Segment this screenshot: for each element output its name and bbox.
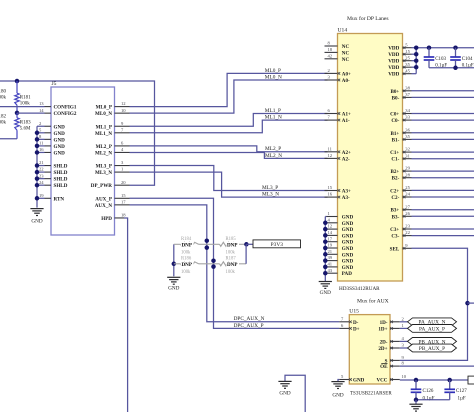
junction dots VDD bus	[414, 45, 419, 50]
junction dot R186 left	[172, 262, 177, 267]
svg-text:PA_AUX_P: PA_AUX_P	[419, 326, 445, 332]
svg-text:37: 37	[405, 92, 410, 97]
svg-text:C2-: C2-	[391, 195, 399, 201]
svg-text:ML1_N: ML1_N	[265, 115, 282, 121]
svg-text:17: 17	[328, 236, 333, 241]
wire VCC rail	[400, 379, 468, 381]
svg-text:GND: GND	[342, 246, 354, 252]
svg-text:R186: R186	[181, 257, 192, 262]
wire ML0_N	[130, 80, 328, 113]
svg-text:GND: GND	[342, 227, 354, 233]
svg-text:R183: R183	[20, 120, 31, 125]
wire C126 to ground	[415, 400, 417, 404]
svg-text:VDD: VDD	[388, 59, 399, 65]
svg-text:23: 23	[405, 224, 410, 229]
svg-text:GND: GND	[31, 219, 42, 225]
svg-text:15: 15	[328, 185, 333, 190]
svg-text:25: 25	[405, 185, 410, 190]
svg-text:GND: GND	[54, 124, 66, 130]
svg-text:1: 1	[402, 323, 405, 328]
U14 left pin x-marks	[338, 72, 341, 75]
resistor R185 100k DNP	[207, 243, 220, 245]
wire VDD caps bottom rail	[429, 67, 474, 69]
svg-text:C1-: C1-	[391, 157, 399, 163]
svg-text:ML3_N: ML3_N	[262, 192, 279, 198]
svg-text:35: 35	[405, 62, 410, 67]
svg-text:3: 3	[328, 75, 331, 80]
power flag P3V3	[253, 240, 301, 248]
svg-text:C0+: C0+	[390, 112, 399, 118]
wire DP_PWR net (J5 pin 20 up and across top)	[0, 81, 155, 185]
svg-text:12: 12	[328, 153, 333, 158]
svg-text:8: 8	[39, 134, 42, 139]
svg-text:9: 9	[405, 243, 408, 248]
svg-text:12: 12	[121, 101, 126, 106]
svg-text:Mux for AUX: Mux for AUX	[357, 298, 389, 305]
svg-text:28: 28	[405, 172, 410, 177]
svg-text:GND: GND	[279, 390, 290, 396]
svg-text:ML1_P: ML1_P	[265, 108, 281, 114]
net flag PB_AUX_N	[408, 338, 457, 346]
ground GND at C126	[409, 403, 422, 405]
svg-text:29: 29	[405, 166, 410, 171]
svg-text:45: 45	[405, 68, 410, 73]
wire CONFIG2	[17, 112, 45, 114]
svg-text:DPC_AUX_P: DPC_AUX_P	[234, 323, 264, 329]
svg-text:100k: 100k	[0, 96, 7, 101]
wire ML3_P	[130, 166, 328, 191]
svg-text:A1-: A1-	[342, 118, 350, 124]
svg-text:13: 13	[39, 101, 44, 106]
svg-text:ML3_N: ML3_N	[95, 170, 112, 176]
svg-text:B0+: B0+	[390, 89, 399, 95]
svg-text:PAD: PAD	[342, 271, 352, 277]
svg-text:8: 8	[402, 361, 405, 366]
junction dot caps bottom	[453, 66, 458, 71]
U14 right pin x-marks	[403, 46, 406, 49]
svg-text:1: 1	[121, 167, 124, 172]
IC U14 HD3SS3412 mux	[338, 34, 403, 282]
svg-text:HPD: HPD	[101, 216, 112, 222]
svg-text:GND: GND	[353, 378, 365, 384]
svg-text:24: 24	[39, 180, 44, 185]
svg-text:VCC: VCC	[376, 378, 387, 384]
svg-text:ML2_N: ML2_N	[95, 150, 112, 156]
svg-text:10: 10	[121, 108, 126, 113]
wire ML2_P	[130, 146, 328, 152]
wire CONFIG1 to left edge	[0, 106, 45, 108]
wire 2D- to flag	[400, 340, 408, 342]
svg-text:5: 5	[405, 42, 408, 47]
wire GND to R184/R186 left	[173, 244, 175, 276]
svg-text:1D+: 1D+	[378, 326, 387, 332]
svg-text:CONFIG2: CONFIG2	[54, 111, 77, 117]
svg-text:B1-: B1-	[392, 137, 400, 143]
wire SEL to U15 S pin	[400, 248, 468, 360]
IC U15 TS3USB221A	[349, 315, 390, 384]
wire R187 up to P3V3 node	[245, 244, 247, 263]
svg-text:18: 18	[328, 47, 333, 52]
svg-text:GND: GND	[54, 137, 66, 143]
junction dots VDD rail	[427, 45, 432, 50]
svg-text:7: 7	[341, 316, 344, 321]
svg-text:100k: 100k	[181, 250, 191, 255]
svg-text:DP_PWR: DP_PWR	[91, 183, 113, 189]
J5 right pin stubs	[115, 106, 130, 108]
svg-text:11: 11	[39, 141, 44, 146]
U15 left pin x-marks	[349, 321, 352, 324]
svg-text:ML1_N: ML1_N	[95, 131, 112, 137]
svg-text:2: 2	[328, 68, 331, 73]
wire VDD bus	[415, 48, 417, 74]
svg-text:2: 2	[39, 121, 42, 126]
svg-text:R182: R182	[0, 115, 6, 120]
ground GND bottom left of U15	[278, 380, 291, 382]
power flag P3V3 at VCC clipped	[468, 376, 474, 384]
svg-text:HD3SS3412RUAR: HD3SS3412RUAR	[339, 286, 380, 292]
svg-text:22: 22	[405, 230, 410, 235]
label DNP R184	[181, 242, 194, 248]
svg-text:C127: C127	[456, 389, 467, 394]
svg-text:C126: C126	[423, 389, 434, 394]
wire AUX_P down to AUX mux	[130, 198, 340, 328]
svg-text:ML1_P: ML1_P	[96, 124, 112, 130]
svg-text:34: 34	[405, 108, 410, 113]
svg-text:VDD: VDD	[388, 72, 399, 78]
junction dot P3V3 node	[244, 242, 249, 247]
ground GND AUX bias	[167, 276, 180, 278]
svg-text:R181: R181	[20, 96, 31, 101]
svg-text:U14: U14	[338, 28, 348, 34]
svg-text:GND: GND	[342, 221, 354, 227]
svg-text:20: 20	[121, 180, 126, 185]
svg-text:17: 17	[121, 199, 126, 204]
svg-text:RTN: RTN	[54, 196, 65, 202]
svg-text:GND: GND	[342, 233, 354, 239]
svg-text:GND: GND	[54, 131, 66, 137]
svg-text:100k: 100k	[0, 121, 7, 126]
wire bottom ground net	[285, 375, 305, 412]
capacitor C103 0.1uF	[428, 48, 430, 57]
svg-text:OE: OE	[380, 364, 388, 370]
svg-text:16: 16	[39, 147, 44, 152]
svg-text:J5: J5	[52, 81, 57, 87]
svg-text:27: 27	[405, 204, 410, 209]
svg-text:R180: R180	[0, 90, 6, 95]
svg-text:C3-: C3-	[391, 234, 399, 240]
wires U14 B/C outputs to right edge	[412, 90, 474, 92]
svg-text:A3+: A3+	[342, 189, 351, 195]
svg-text:DNP: DNP	[182, 262, 192, 268]
junction dots AUX_N tap	[205, 238, 210, 243]
svg-text:19: 19	[39, 193, 44, 198]
svg-text:R184: R184	[181, 237, 192, 242]
label DNP R185	[226, 242, 239, 248]
svg-text:ML2_P: ML2_P	[265, 146, 281, 152]
svg-text:GND: GND	[54, 150, 66, 156]
resistor R186 100k DNP	[174, 263, 181, 265]
svg-text:AUX_P: AUX_P	[95, 196, 112, 202]
svg-text:43: 43	[328, 268, 333, 273]
svg-text:VDD: VDD	[388, 65, 399, 71]
ground GND at U14	[319, 281, 332, 283]
svg-text:1µF: 1µF	[458, 397, 466, 402]
svg-text:38: 38	[405, 85, 410, 90]
svg-text:NC: NC	[342, 44, 350, 50]
wire OE to right edge	[400, 365, 474, 367]
svg-text:A2+: A2+	[342, 150, 351, 156]
svg-text:GND: GND	[342, 240, 354, 246]
svg-text:B2-: B2-	[392, 176, 400, 182]
svg-text:U15: U15	[349, 309, 359, 315]
svg-text:39: 39	[328, 255, 333, 260]
svg-text:23: 23	[39, 173, 44, 178]
wire ML3_N	[130, 172, 328, 197]
svg-text:C2+: C2+	[390, 188, 399, 194]
svg-text:4: 4	[402, 336, 405, 341]
svg-text:DNP: DNP	[227, 243, 237, 249]
svg-text:5: 5	[39, 127, 42, 132]
svg-text:P3V3: P3V3	[271, 242, 284, 248]
svg-text:6: 6	[341, 323, 344, 328]
svg-text:SHLD: SHLD	[54, 164, 68, 170]
svg-text:D-: D-	[353, 320, 359, 326]
svg-text:5.6M: 5.6M	[20, 126, 31, 131]
svg-text:8: 8	[328, 41, 331, 46]
svg-text:NC: NC	[342, 50, 350, 56]
junction dot C126 bottom	[414, 398, 419, 403]
svg-text:NC: NC	[342, 57, 350, 63]
svg-text:24: 24	[405, 192, 410, 197]
svg-text:AUX_N: AUX_N	[95, 203, 113, 209]
svg-text:SHLD: SHLD	[54, 183, 68, 189]
wire caps bottom C126 C127	[416, 399, 450, 401]
svg-text:VDD: VDD	[388, 46, 399, 52]
svg-text:B0-: B0-	[392, 95, 400, 101]
svg-text:11: 11	[328, 146, 333, 151]
svg-text:4: 4	[121, 147, 124, 152]
capacitor C104 0.1uF	[455, 48, 457, 57]
svg-text:21: 21	[39, 160, 44, 165]
svg-text:5: 5	[341, 374, 344, 379]
svg-text:25: 25	[405, 55, 410, 60]
svg-text:B1+: B1+	[390, 131, 399, 137]
svg-text:GND: GND	[342, 265, 354, 271]
svg-text:100k: 100k	[181, 270, 191, 275]
junction node CONFIG2 / R183	[15, 111, 20, 116]
U15 right pin stubs	[390, 321, 400, 323]
svg-text:C0-: C0-	[391, 118, 399, 124]
svg-text:A3-: A3-	[342, 195, 350, 201]
svg-text:ML0_P: ML0_P	[265, 68, 281, 74]
junction dots J5 GND bus	[35, 131, 40, 136]
svg-text:ML2_P: ML2_P	[96, 144, 112, 150]
svg-text:PB_AUX_P: PB_AUX_P	[419, 346, 445, 352]
svg-text:6: 6	[121, 141, 124, 146]
svg-text:SEL: SEL	[390, 246, 400, 252]
svg-text:41: 41	[328, 262, 333, 267]
svg-text:16: 16	[328, 192, 333, 197]
svg-text:14: 14	[39, 108, 44, 113]
resistor R181 100k	[16, 81, 18, 93]
wire 1D- to flag	[400, 321, 408, 323]
svg-text:GND: GND	[342, 259, 354, 265]
wire VDD rail to caps	[416, 47, 474, 49]
svg-text:DPC_AUX_N: DPC_AUX_N	[234, 316, 265, 322]
J5 left pin stubs	[45, 106, 52, 108]
junction dot SEL branch	[465, 301, 470, 306]
svg-text:B3+: B3+	[390, 208, 399, 214]
svg-text:100k: 100k	[226, 250, 236, 255]
svg-text:C103: C103	[435, 57, 446, 62]
svg-text:ML3_P: ML3_P	[262, 185, 278, 191]
wire to P3V3 flag	[246, 243, 253, 245]
ground GND at J5	[30, 208, 43, 210]
svg-text:R187: R187	[226, 257, 237, 262]
svg-text:100k: 100k	[226, 270, 236, 275]
svg-text:33: 33	[405, 115, 410, 120]
svg-text:42: 42	[328, 53, 333, 58]
net flag PA_AUX_P	[408, 325, 457, 333]
svg-text:2D-: 2D-	[380, 339, 388, 345]
svg-text:22: 22	[39, 167, 44, 172]
svg-text:6: 6	[328, 108, 331, 113]
svg-text:GND: GND	[54, 144, 66, 150]
svg-text:14: 14	[328, 230, 333, 235]
net flag PA_AUX_N	[408, 318, 457, 326]
net flag PB_AUX_P	[408, 344, 457, 352]
ground GND at U15	[331, 381, 344, 383]
svg-text:TS3USB221ARSER: TS3USB221ARSER	[350, 392, 392, 397]
svg-text:C1+: C1+	[390, 150, 399, 156]
junction dots AUX_P tap	[211, 258, 216, 263]
svg-text:1D-: 1D-	[380, 320, 388, 326]
U15 right pin x-marks	[390, 321, 393, 324]
svg-text:0.1µF: 0.1µF	[423, 397, 435, 402]
resistor R183 5.6M	[16, 113, 18, 118]
svg-text:GND: GND	[342, 215, 354, 221]
capacitor C126 0.1uF	[415, 380, 417, 389]
wire ML1_P	[130, 114, 328, 127]
U15 OE overline	[381, 362, 387, 364]
svg-text:9: 9	[121, 121, 124, 126]
resistor R184 100k DNP	[174, 243, 181, 245]
wire 2D+ to flag	[400, 347, 408, 349]
svg-text:100k: 100k	[20, 102, 31, 107]
svg-text:R185: R185	[226, 237, 237, 242]
wire ML0_P	[130, 73, 328, 106]
svg-text:DNP: DNP	[227, 262, 237, 268]
svg-text:DNP: DNP	[182, 243, 192, 249]
svg-text:GND: GND	[320, 290, 331, 296]
svg-text:15: 15	[121, 193, 126, 198]
svg-text:21: 21	[328, 249, 333, 254]
svg-text:19: 19	[328, 243, 333, 248]
wire AUX_N down to AUX mux	[130, 205, 340, 322]
svg-text:12: 12	[328, 224, 333, 229]
svg-text:GND: GND	[168, 285, 179, 291]
svg-text:A1+: A1+	[342, 112, 351, 118]
resistor R187 100k DNP	[214, 263, 220, 265]
svg-text:1: 1	[328, 211, 331, 216]
svg-text:4: 4	[328, 217, 331, 222]
wire J5 GND bus	[36, 126, 38, 207]
svg-text:7: 7	[328, 115, 331, 120]
svg-text:A0-: A0-	[342, 78, 350, 84]
svg-text:ML0_N: ML0_N	[265, 74, 282, 80]
wire ML1_N	[130, 120, 328, 133]
svg-text:10: 10	[402, 374, 407, 379]
svg-text:7: 7	[121, 127, 124, 132]
svg-text:26: 26	[405, 211, 410, 216]
label DNP R186	[181, 262, 194, 268]
svg-text:VDD: VDD	[388, 52, 399, 58]
wire HPD down	[124, 218, 128, 412]
svg-text:3: 3	[121, 160, 124, 165]
svg-text:GND: GND	[342, 252, 354, 258]
U15 left pin stubs	[339, 321, 349, 323]
svg-text:ML0_P: ML0_P	[96, 105, 112, 111]
svg-text:GND: GND	[332, 393, 343, 399]
svg-text:3: 3	[402, 343, 405, 348]
svg-text:31: 31	[405, 153, 410, 158]
junction node DP_PWR / R181	[15, 79, 20, 84]
svg-text:36: 36	[405, 127, 410, 132]
svg-text:SHLD: SHLD	[54, 170, 68, 176]
svg-text:15: 15	[405, 49, 410, 54]
junction dots U14 GND bus	[323, 221, 328, 226]
svg-text:32: 32	[405, 147, 410, 152]
svg-text:B3-: B3-	[392, 214, 400, 220]
svg-text:A0+: A0+	[342, 71, 351, 77]
svg-text:ML2_N: ML2_N	[265, 153, 282, 159]
svg-text:2D+: 2D+	[378, 346, 387, 352]
wire SEL stub to right edge	[468, 302, 474, 304]
svg-text:2: 2	[402, 316, 405, 321]
svg-text:D+: D+	[353, 326, 360, 332]
svg-text:Mux for DP Lanes: Mux for DP Lanes	[347, 15, 389, 22]
svg-text:B2+: B2+	[390, 169, 399, 175]
wire ML2_N	[130, 152, 328, 158]
svg-text:18: 18	[121, 213, 126, 218]
U14 left pin stubs	[325, 45, 338, 47]
wire U15 GND pin to ground	[338, 380, 339, 382]
svg-text:C104: C104	[462, 57, 473, 62]
svg-text:A2-: A2-	[342, 156, 350, 162]
svg-text:SHLD: SHLD	[54, 177, 68, 183]
svg-text:ML0_N: ML0_N	[95, 111, 112, 117]
wire R183 to left edge	[0, 138, 17, 140]
svg-text:ML3_P: ML3_P	[96, 164, 112, 170]
svg-text:CONFIG1: CONFIG1	[54, 105, 77, 111]
U14 right pin stubs	[403, 47, 412, 49]
svg-text:35: 35	[405, 134, 410, 139]
label DNP R187	[226, 262, 239, 268]
junction dots VCC rail	[414, 378, 419, 383]
svg-text:9: 9	[402, 355, 405, 360]
connector J5 DisplayPort	[51, 87, 115, 235]
wire U14 GND bus	[324, 217, 326, 282]
svg-text:C3+: C3+	[390, 227, 399, 233]
capacitor C127 1uF	[449, 380, 451, 389]
wire 1D+ to flag	[400, 327, 408, 329]
